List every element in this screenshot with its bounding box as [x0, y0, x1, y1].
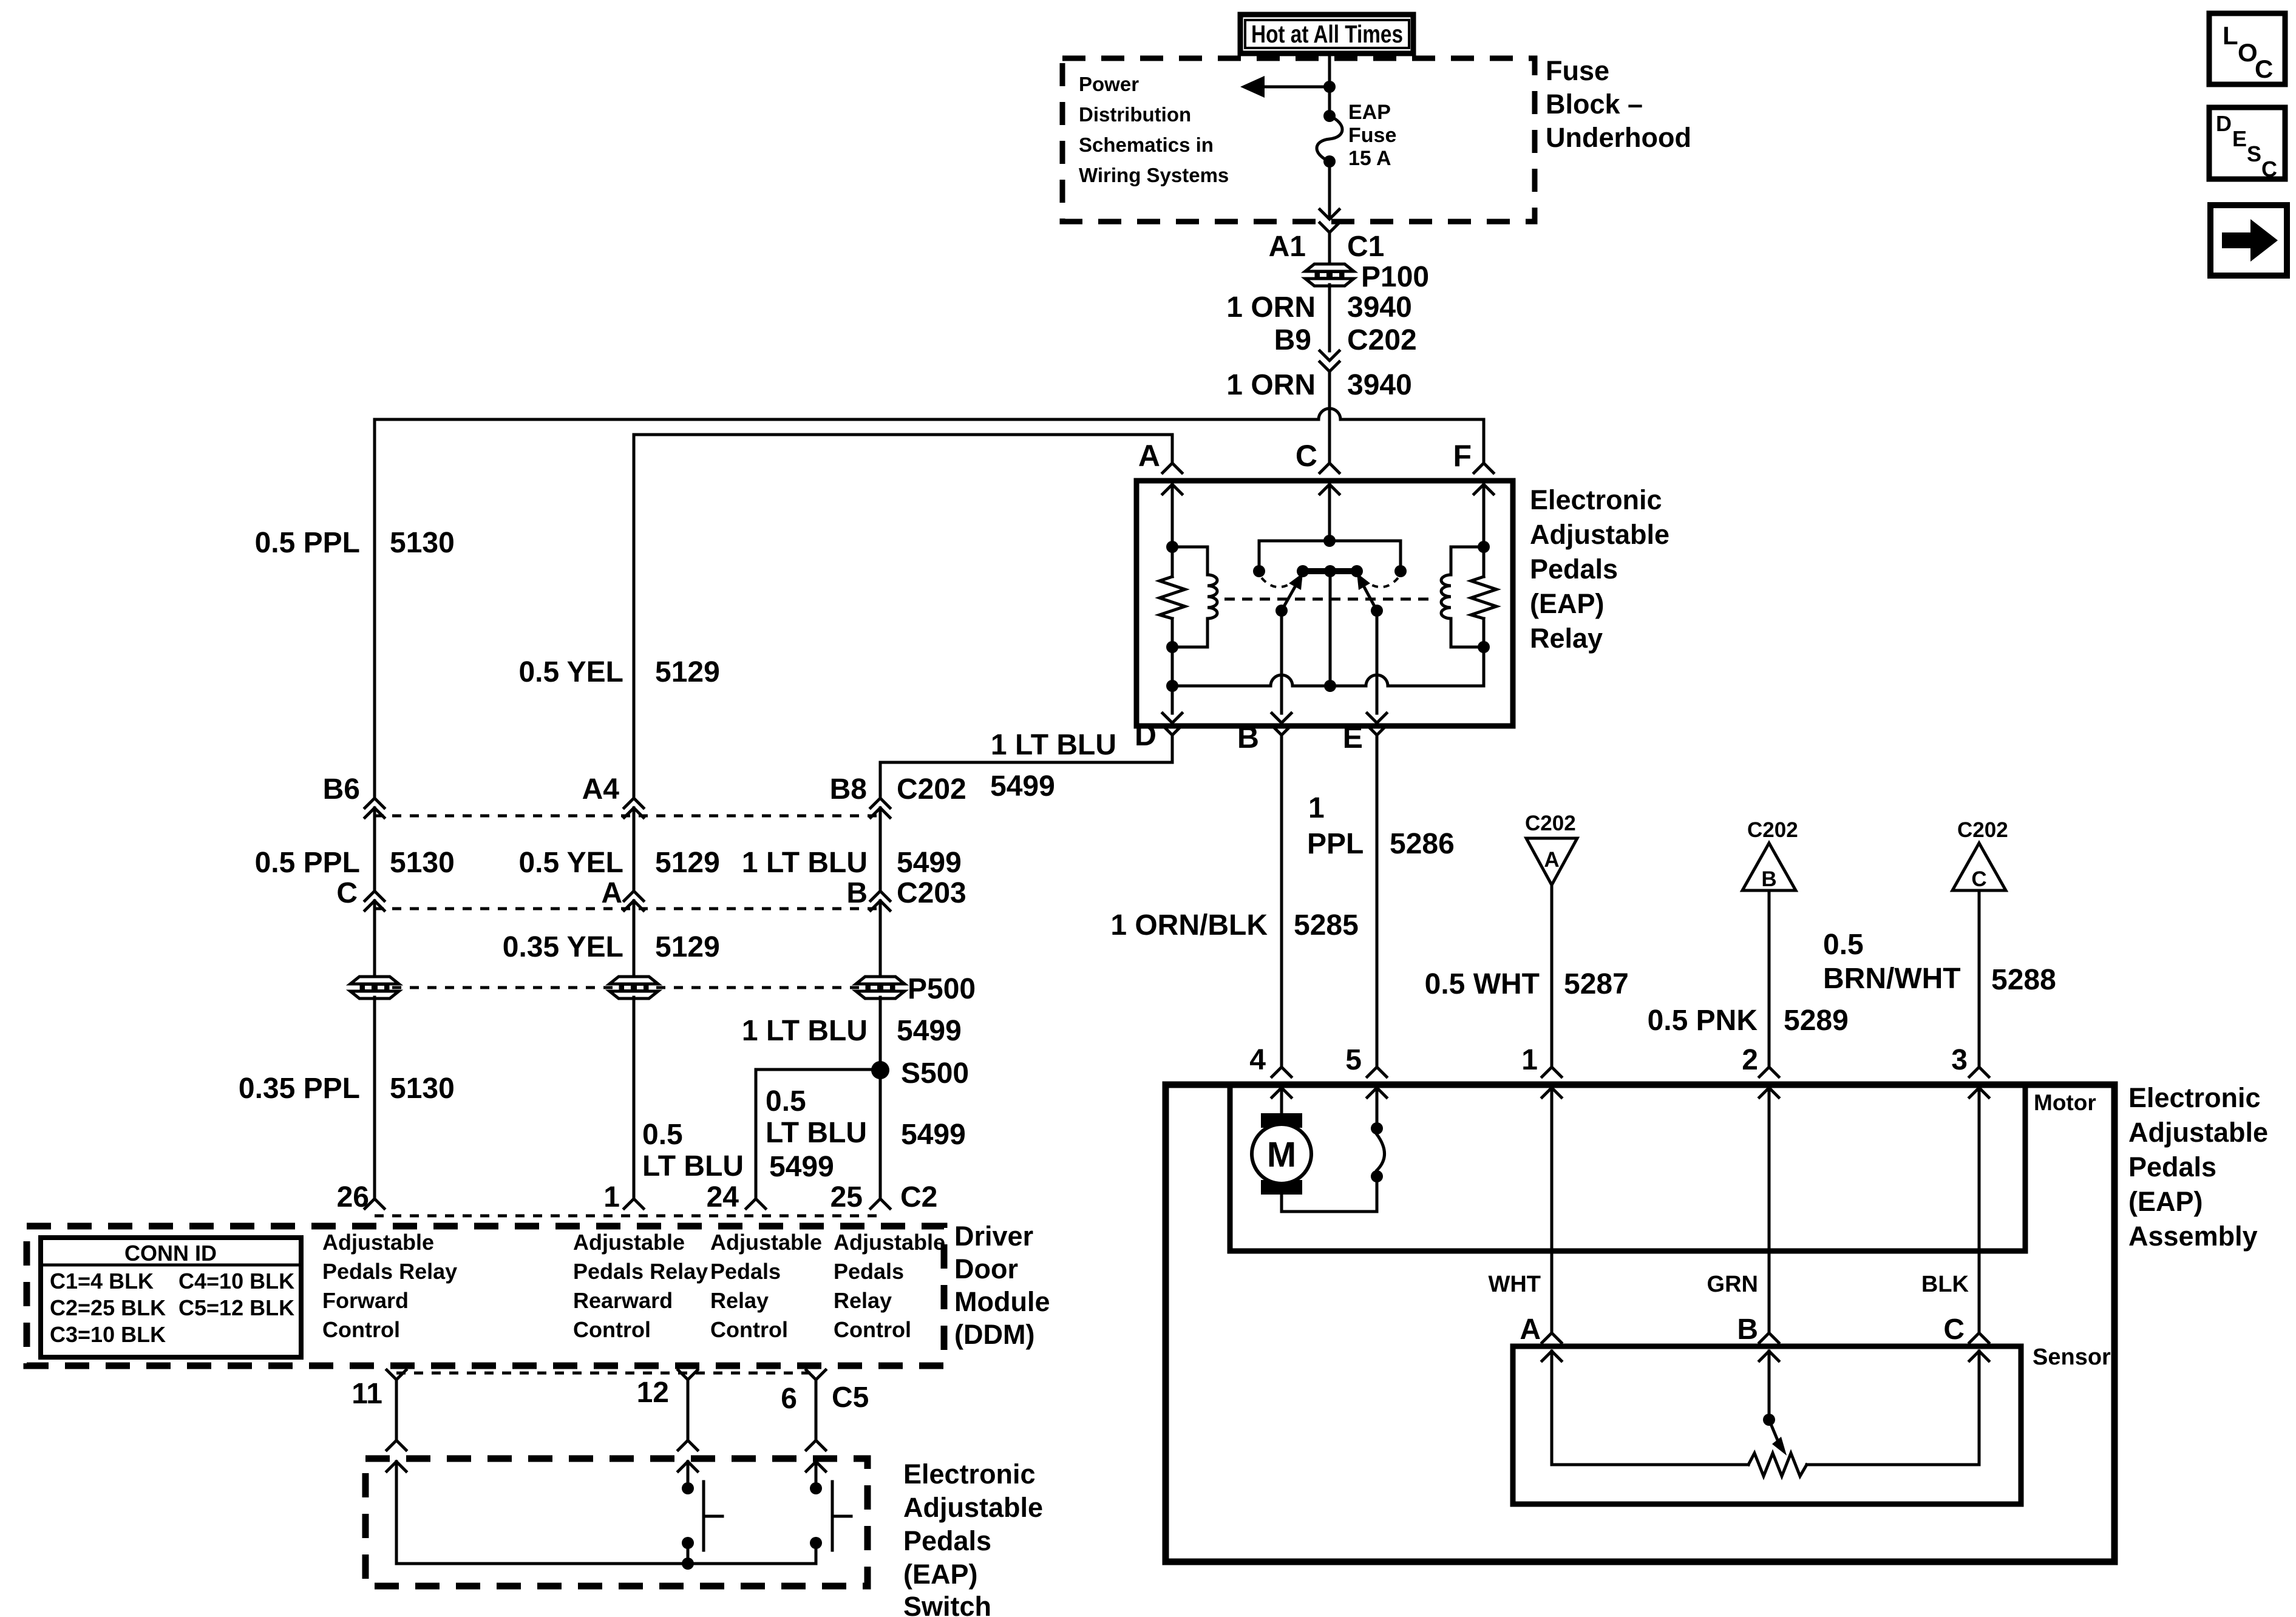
svg-text:4: 4 — [1249, 1044, 1266, 1076]
svg-text:B6: B6 — [323, 773, 360, 805]
svg-text:Underhood: Underhood — [1546, 122, 1691, 153]
svg-text:Adjustable: Adjustable — [322, 1230, 434, 1255]
label 0.35 YEL 5129 — [503, 931, 720, 963]
svg-text:Power: Power — [1079, 73, 1139, 95]
svg-text:5129: 5129 — [655, 656, 720, 688]
svg-text:1: 1 — [1521, 1044, 1538, 1076]
svg-text:5: 5 — [1345, 1044, 1362, 1076]
svg-text:C202: C202 — [1525, 812, 1576, 835]
svg-text:Adjustable: Adjustable — [2128, 1117, 2268, 1148]
svg-text:0.5: 0.5 — [766, 1085, 806, 1117]
svg-text:C2=25 BLK: C2=25 BLK — [50, 1295, 166, 1320]
svg-text:Driver: Driver — [954, 1221, 1033, 1252]
relay pin D exit — [1135, 686, 1182, 752]
svg-text:B: B — [1761, 867, 1776, 891]
svg-text:P100: P100 — [1361, 261, 1429, 293]
label 1 LT BLU 5499 below P500 — [742, 1015, 962, 1047]
pin 1 into DDM — [603, 1181, 644, 1213]
svg-text:5289: 5289 — [1784, 1005, 1849, 1037]
svg-text:5499: 5499 — [901, 1119, 966, 1151]
svg-text:15 A: 15 A — [1348, 147, 1391, 170]
wire fuse output — [1328, 161, 1331, 219]
svg-text:Control: Control — [322, 1317, 400, 1342]
label 0.35 PPL 5130 — [239, 1073, 455, 1105]
svg-text:Module: Module — [954, 1286, 1050, 1317]
relay pin E exit — [1343, 611, 1387, 754]
wire 5287 WHT — [1550, 885, 1554, 1067]
svg-text:Adjustable: Adjustable — [1530, 519, 1669, 550]
connector C202 triangle C — [1952, 818, 2008, 891]
wire from hot feed down — [1328, 53, 1331, 116]
svg-text:(EAP): (EAP) — [1530, 588, 1605, 619]
svg-text:C5=12 BLK: C5=12 BLK — [178, 1295, 294, 1320]
svg-text:Pedals: Pedals — [1530, 554, 1618, 585]
svg-text:E: E — [1343, 720, 1363, 754]
switch common rail — [396, 1562, 816, 1565]
relay mechanical linkage dashed line — [1224, 598, 1436, 601]
svg-text:0.5 PNK: 0.5 PNK — [1648, 1005, 1758, 1037]
relay left resistor — [1160, 547, 1185, 647]
pins entering EAP switch — [387, 1440, 826, 1471]
pin B6 at C202 — [323, 773, 384, 818]
svg-text:D: D — [1135, 718, 1156, 752]
pin labels B9 C202 — [1274, 324, 1417, 356]
pin 24 into DDM — [707, 1181, 766, 1213]
pin 6 out of DDM — [781, 1370, 869, 1440]
svg-text:1 ORN: 1 ORN — [1226, 291, 1316, 324]
wire 5129 YEL segment — [633, 808, 636, 891]
svg-text:Pedals: Pedals — [2128, 1151, 2216, 1182]
sensor wiper wire B — [1763, 1351, 1787, 1456]
label 0.5 WHT 5287 — [1425, 968, 1629, 1000]
svg-text:Motor: Motor — [2034, 1090, 2096, 1115]
wire branch from S500 to pin 24 — [756, 1070, 880, 1199]
svg-text:C1: C1 — [1347, 231, 1384, 263]
pin 11 out of DDM — [352, 1370, 406, 1440]
svg-text:0.5 YEL: 0.5 YEL — [518, 847, 623, 879]
svg-text:A: A — [1138, 439, 1160, 473]
svg-text:P500: P500 — [908, 973, 976, 1005]
svg-text:1 LT BLU: 1 LT BLU — [991, 729, 1116, 761]
pin 25 into DDM — [830, 1181, 938, 1213]
svg-text:B: B — [1737, 1314, 1758, 1346]
svg-text:1: 1 — [603, 1181, 620, 1213]
wire relay pin F drop — [1483, 419, 1486, 463]
svg-text:LT BLU: LT BLU — [642, 1150, 744, 1182]
svg-text:C202: C202 — [897, 773, 966, 805]
relay pin A — [1138, 439, 1182, 547]
svg-text:S: S — [2247, 141, 2261, 166]
svg-text:CONN ID: CONN ID — [124, 1241, 217, 1266]
svg-text:3940: 3940 — [1347, 369, 1412, 401]
label 1 ORN 3940 — [1226, 291, 1411, 324]
wire 5130 PPL vertical — [373, 419, 376, 798]
svg-text:C4=10 BLK: C4=10 BLK — [178, 1269, 294, 1293]
svg-text:C3=10 BLK: C3=10 BLK — [50, 1322, 166, 1347]
grommet P500 middle — [610, 977, 658, 998]
svg-text:Block –: Block – — [1546, 89, 1643, 120]
pins inside assembly top — [1272, 1088, 1989, 1097]
sensor sub-box — [1513, 1346, 2021, 1504]
label Fuse Block - Underhood — [1546, 55, 1691, 153]
motor sub-box — [1230, 1085, 2025, 1251]
svg-text:0.35 PPL: 0.35 PPL — [239, 1073, 360, 1105]
svg-text:BRN/WHT: BRN/WHT — [1823, 963, 1961, 995]
wire 3 through motor box — [1978, 1088, 1981, 1333]
connector C5 dashed line — [396, 1372, 816, 1375]
svg-text:A: A — [1520, 1314, 1541, 1346]
svg-text:C: C — [2255, 55, 2273, 83]
svg-text:S500: S500 — [901, 1057, 969, 1090]
wire segments below P500 — [373, 997, 376, 1199]
motor M — [1252, 1113, 1311, 1195]
svg-text:0.5: 0.5 — [1823, 929, 1864, 961]
wire motor to thermal switch — [1282, 1176, 1377, 1212]
forward arrow page icon box — [2210, 205, 2287, 276]
wire left coil to rail — [1171, 647, 1174, 686]
svg-text:(EAP): (EAP) — [2128, 1186, 2203, 1217]
svg-text:A4: A4 — [582, 773, 620, 805]
wire 5289 PNK — [1768, 890, 1771, 1067]
wire right coil to rail — [1483, 647, 1486, 686]
in-line connector C203 dashed line — [375, 907, 880, 910]
svg-text:C203: C203 — [897, 877, 966, 909]
svg-text:Electronic: Electronic — [1530, 484, 1662, 515]
relay bottom rail with hops over B and E — [1172, 675, 1484, 686]
svg-text:GRN: GRN — [1707, 1272, 1758, 1297]
svg-text:5499: 5499 — [990, 770, 1055, 802]
svg-text:WHT: WHT — [1488, 1272, 1541, 1297]
labels WHT GRN BLK — [1488, 1272, 1969, 1297]
svg-text:24: 24 — [707, 1181, 739, 1213]
wire 5288 BRN/WHT — [1978, 890, 1981, 1067]
svg-text:Control: Control — [710, 1317, 788, 1342]
wire horizontal feed YEL branch to relay pin A — [634, 433, 1172, 436]
svg-text:Distribution: Distribution — [1079, 103, 1191, 126]
svg-text:5130: 5130 — [390, 847, 455, 879]
wire 5129 YEL vertical — [633, 435, 636, 798]
wire 5130 PPL segment — [373, 808, 376, 891]
LOC page icon box — [2209, 13, 2285, 84]
pin C at C203 — [336, 877, 384, 910]
svg-text:5288: 5288 — [1991, 964, 2056, 996]
svg-text:1 ORN: 1 ORN — [1226, 369, 1316, 401]
svg-text:C2: C2 — [900, 1181, 937, 1213]
wire 1 through motor box — [1550, 1088, 1554, 1333]
sensor potentiometer resistor — [1748, 1453, 1807, 1476]
svg-text:B: B — [1237, 720, 1259, 754]
svg-text:0.5 PPL: 0.5 PPL — [255, 847, 360, 879]
svg-text:Hot at All Times: Hot at All Times — [1251, 20, 1403, 48]
CONN ID table — [41, 1238, 301, 1357]
fuse block underhood dashed box — [1062, 58, 1535, 222]
wire segments to P500 — [373, 901, 376, 978]
label Adjustable Pedals Relay Rearward Control — [573, 1230, 708, 1342]
svg-text:Adjustable: Adjustable — [834, 1230, 945, 1255]
switch SW2 (rearward) — [810, 1462, 851, 1564]
svg-text:Control: Control — [573, 1317, 651, 1342]
relay right resistor — [1471, 547, 1496, 647]
svg-text:Forward: Forward — [322, 1288, 409, 1313]
svg-text:1 LT BLU: 1 LT BLU — [742, 1015, 868, 1047]
relay contact travel dashed arc left — [1262, 577, 1299, 587]
svg-text:LT BLU: LT BLU — [766, 1117, 867, 1149]
relay switch arm E — [1357, 573, 1383, 617]
svg-text:Fuse: Fuse — [1546, 55, 1609, 86]
relay pin B exit — [1237, 611, 1291, 754]
svg-text:5499: 5499 — [769, 1151, 834, 1183]
svg-text:Assembly: Assembly — [2128, 1221, 2258, 1252]
svg-text:Switch: Switch — [903, 1591, 991, 1617]
svg-text:C: C — [1971, 867, 1986, 891]
svg-text:B9: B9 — [1274, 324, 1311, 356]
svg-text:M: M — [1267, 1135, 1296, 1175]
relay common feed bracket from pin C — [1253, 535, 1407, 577]
svg-text:Electronic: Electronic — [903, 1459, 1036, 1490]
connector C202 triangle A — [1525, 812, 1577, 885]
pin 12 out of DDM — [637, 1370, 698, 1440]
svg-text:Relay: Relay — [1530, 623, 1603, 654]
relay contact travel dashed arc right — [1360, 577, 1398, 587]
svg-text:0.5 YEL: 0.5 YEL — [518, 656, 623, 688]
wire pin 4 to motor — [1280, 1088, 1283, 1113]
svg-text:PPL: PPL — [1307, 828, 1364, 860]
svg-text:Rearward: Rearward — [573, 1288, 673, 1313]
label 0.5 PPL 5130 — [255, 527, 455, 559]
sensor wire C — [1807, 1351, 1979, 1465]
Driver Door Module dashed box — [27, 1226, 944, 1366]
svg-text:L: L — [2223, 21, 2238, 50]
grommet P100 — [1305, 264, 1354, 286]
svg-text:5499: 5499 — [897, 847, 962, 879]
svg-text:Adjustable: Adjustable — [573, 1230, 685, 1255]
in-line connector C202 chevrons — [1320, 351, 1339, 371]
svg-text:D: D — [2216, 111, 2232, 136]
node rail junction — [682, 1558, 694, 1570]
relay box: Electronic Adjustable Pedals (EAP) Relay — [1136, 481, 1513, 726]
label 0.5 BRN/WHT 5288 — [1823, 929, 2056, 996]
label Adjustable Pedals Relay Control (25) — [834, 1230, 945, 1342]
wire pin 5 to switch — [1376, 1088, 1379, 1128]
splice S500 — [871, 1061, 889, 1079]
svg-text:A: A — [601, 877, 622, 909]
pin A at C203 — [601, 877, 644, 910]
svg-text:C: C — [1296, 439, 1317, 473]
svg-text:5130: 5130 — [390, 527, 455, 559]
relay center contact wire — [1329, 571, 1332, 686]
connector leaving fuse block: arrow + fork — [1320, 209, 1339, 232]
wire segment to P100 — [1328, 232, 1331, 265]
svg-text:0.5 WHT: 0.5 WHT — [1425, 968, 1540, 1000]
svg-text:25: 25 — [830, 1181, 863, 1213]
svg-text:C202: C202 — [1957, 818, 2008, 842]
wire 5286 PPL from relay E to assembly pin 5 — [1376, 735, 1379, 1067]
svg-text:0.5: 0.5 — [642, 1119, 683, 1151]
svg-text:0.5 PPL: 0.5 PPL — [255, 527, 360, 559]
svg-text:Wiring Systems: Wiring Systems — [1079, 164, 1229, 186]
svg-text:1 LT BLU: 1 LT BLU — [742, 847, 868, 879]
sensor connector pins A B C — [1520, 1314, 1989, 1361]
svg-text:3: 3 — [1951, 1044, 1968, 1076]
svg-text:F: F — [1453, 439, 1472, 473]
svg-text:Sensor: Sensor — [2033, 1344, 2111, 1370]
relay pin F — [1453, 439, 1493, 547]
svg-text:Relay: Relay — [834, 1288, 892, 1313]
svg-text:C: C — [1943, 1314, 1965, 1346]
svg-text:1: 1 — [1308, 792, 1325, 824]
svg-text:B8: B8 — [830, 773, 867, 805]
sensor wire A — [1552, 1351, 1748, 1465]
svg-text:Control: Control — [834, 1317, 911, 1342]
pin A4 at C202 — [582, 773, 644, 818]
svg-text:C5: C5 — [832, 1381, 869, 1414]
svg-text:B: B — [846, 877, 868, 909]
svg-text:Electronic: Electronic — [2128, 1082, 2261, 1113]
pin 26 into DDM — [337, 1181, 384, 1213]
svg-text:Pedals: Pedals — [710, 1259, 781, 1284]
label 0.5 LT BLU 5499 (branch 24) — [766, 1085, 867, 1183]
label 1 PPL 5286 — [1307, 792, 1455, 860]
svg-text:C1=4 BLK: C1=4 BLK — [50, 1269, 154, 1293]
svg-text:Door: Door — [954, 1253, 1018, 1284]
relay right coil winding — [1441, 541, 1490, 653]
relay movable contact bar — [1297, 565, 1363, 577]
node rail junctions — [1166, 680, 1178, 692]
wire 5499 LT BLU from relay D — [880, 735, 1172, 798]
svg-text:Fuse: Fuse — [1348, 124, 1396, 147]
wire horizontal feed to relay pins A-F with hop over ORN vertical — [375, 408, 1484, 419]
relay pin C — [1296, 439, 1339, 541]
svg-text:C202: C202 — [1347, 324, 1417, 356]
Hot at All Times power label box — [1240, 15, 1413, 53]
relay left coil winding — [1166, 541, 1217, 653]
fuse F1 EAP Fuse 15 A — [1317, 101, 1396, 170]
label Electronic Adjustable Pedals (EAP) Assembly — [2128, 1082, 2268, 1252]
label Power Distribution Schematics in Wiring Systems — [1079, 73, 1229, 186]
svg-text:Pedals: Pedals — [834, 1259, 904, 1284]
svg-text:5129: 5129 — [655, 847, 720, 879]
wire pin 11 inside switch — [395, 1462, 398, 1564]
svg-text:5129: 5129 — [655, 931, 720, 963]
wire 3940 ORN to relay — [1328, 371, 1331, 463]
svg-text:Pedals: Pedals — [903, 1525, 991, 1556]
svg-text:5285: 5285 — [1294, 909, 1359, 941]
grommet P500 dashed line — [375, 986, 880, 989]
grommet P500 right — [856, 977, 905, 998]
wire arrow to power distribution schematics — [1240, 76, 1330, 98]
labels 0.5 PPL 5130 / 0.5 YEL 5129 / 1 LT BLU 5499 — [255, 847, 962, 879]
pin B at C203 — [846, 877, 966, 910]
label 0.5 LT BLU (wire 1) — [642, 1119, 744, 1182]
svg-text:12: 12 — [637, 1377, 669, 1409]
wire 5285 ORN/BLK from relay B to assembly pin 4 — [1280, 735, 1283, 1067]
svg-text:(DDM): (DDM) — [954, 1319, 1034, 1350]
Electronic Adjustable Pedals EAP Switch dashed box — [365, 1459, 868, 1586]
svg-text:Adjustable: Adjustable — [903, 1492, 1043, 1523]
label 0.5 YEL 5129 — [518, 656, 719, 688]
svg-text:C: C — [2261, 157, 2277, 181]
svg-text:A1: A1 — [1269, 231, 1306, 263]
node junction to power distribution — [1323, 81, 1336, 93]
svg-text:3940: 3940 — [1347, 291, 1412, 324]
svg-text:Pedals Relay: Pedals Relay — [322, 1259, 457, 1284]
grommet P500 left — [350, 977, 399, 998]
svg-text:5499: 5499 — [897, 1015, 962, 1047]
label Adjustable Pedals Relay Forward Control — [322, 1230, 457, 1342]
svg-text:5130: 5130 — [390, 1073, 455, 1105]
pins entering assembly — [1272, 1067, 1989, 1077]
svg-text:Relay: Relay — [710, 1288, 769, 1313]
svg-text:Adjustable: Adjustable — [710, 1230, 822, 1255]
wire 5499 LT BLU segment — [879, 808, 882, 891]
pin B8 at C202 — [830, 773, 966, 818]
connector C2 dashed line — [375, 1215, 880, 1218]
in-line connector C202 dashed line — [375, 815, 880, 818]
assembly pin labels 4 5 1 2 3 — [1249, 1044, 1968, 1076]
svg-text:11: 11 — [352, 1378, 382, 1410]
svg-text:C202: C202 — [1747, 818, 1798, 842]
switch SW1 (forward) — [682, 1462, 722, 1564]
Electronic Adjustable Pedals EAP Assembly box — [1166, 1085, 2114, 1562]
pin labels A1 C1 — [1269, 231, 1385, 263]
label 0.5 PNK 5289 — [1648, 1005, 1849, 1037]
label 1 ORN 3940 below C202 — [1226, 369, 1411, 401]
svg-text:0.35 YEL: 0.35 YEL — [503, 931, 623, 963]
relay switch arm B — [1275, 573, 1303, 617]
wire 2 through motor box — [1768, 1088, 1771, 1333]
svg-text:EAP: EAP — [1348, 101, 1391, 124]
svg-text:A: A — [1544, 848, 1559, 872]
svg-text:BLK: BLK — [1921, 1272, 1969, 1297]
svg-text:5287: 5287 — [1564, 968, 1629, 1000]
DESC page icon box — [2209, 107, 2285, 181]
svg-text:(EAP): (EAP) — [903, 1559, 978, 1590]
svg-text:C: C — [336, 877, 358, 909]
svg-text:Pedals Relay: Pedals Relay — [573, 1259, 708, 1284]
label Electronic Adjustable Pedals (EAP) Switch — [903, 1459, 1043, 1617]
svg-text:1 ORN/BLK: 1 ORN/BLK — [1110, 909, 1268, 941]
connector C202 triangle B — [1742, 818, 1798, 891]
label Driver Door Module (DDM) — [954, 1221, 1050, 1350]
label Electronic Adjustable Pedals (EAP) Relay — [1530, 484, 1669, 654]
wire relay pin A drop — [1171, 435, 1174, 463]
motor thermal protection switch — [1371, 1122, 1385, 1182]
svg-text:5286: 5286 — [1390, 828, 1455, 860]
svg-text:2: 2 — [1742, 1044, 1758, 1076]
svg-text:E: E — [2232, 126, 2247, 151]
label 1 ORN/BLK 5285 — [1110, 909, 1358, 941]
wire 3940 ORN segment — [1328, 285, 1331, 351]
svg-text:Schematics in: Schematics in — [1079, 134, 1214, 156]
label Adjustable Pedals Relay Control (24) — [710, 1230, 822, 1342]
svg-text:6: 6 — [781, 1383, 797, 1415]
